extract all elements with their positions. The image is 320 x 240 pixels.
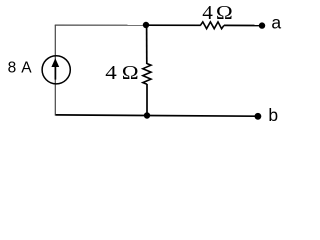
current source I1 circle (42, 56, 70, 84)
current source arrow shaft (54, 67, 56, 80)
wire top-right to horizontal resistor (146, 24, 201, 26)
svg-text:A: A (21, 60, 32, 77)
resistor R1 4 ohm horizontal (200, 22, 224, 29)
wire bottom rail (56, 115, 256, 116)
node terminal b dot (255, 113, 262, 120)
node terminal a dot (259, 22, 265, 28)
wire top-left segment (node between source and resistors) (55, 24, 146, 26)
current source arrow head (51, 58, 59, 67)
svg-text:8: 8 (8, 60, 17, 77)
wire middle branch upper (146, 25, 148, 64)
svg-text:4: 4 (105, 63, 117, 84)
resistor R2 4 ohm vertical (143, 64, 151, 85)
wire from horizontal resistor to terminal a (224, 24, 260, 26)
svg-text:4: 4 (202, 3, 213, 24)
node junction top of middle branch (143, 22, 149, 28)
svg-text:Ω: Ω (216, 3, 233, 24)
node junction bottom of middle branch (144, 112, 150, 118)
wire middle branch lower (146, 84, 148, 116)
svg-text:a: a (271, 13, 281, 33)
svg-text:Ω: Ω (122, 63, 139, 84)
wire left branch (through current source, top and bottom) (54, 25, 56, 116)
svg-text:b: b (268, 105, 278, 125)
